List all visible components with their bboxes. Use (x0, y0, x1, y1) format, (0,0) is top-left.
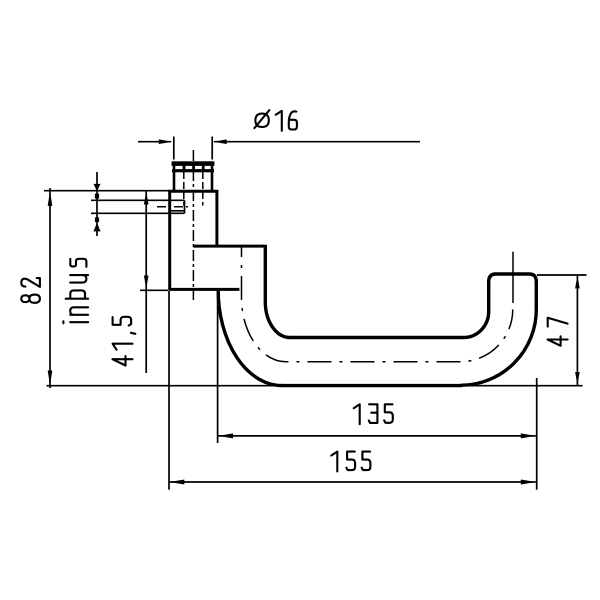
41,5 arrow up (144, 191, 149, 205)
inbus dot lower (95, 217, 99, 222)
set screw hole bottom line (91, 212, 185, 214)
41,5 arrow down (144, 276, 149, 290)
block bottom edge (168, 288, 239, 291)
Ø16 arrow right (213, 139, 227, 144)
set screw hole end (184, 200, 186, 213)
dimension 41,5 line (145, 191, 147, 373)
135 arrow right (521, 433, 536, 438)
inbus dot upper (95, 194, 99, 199)
label 41,5 (113, 317, 136, 366)
set screw hole top line (91, 199, 185, 201)
grip inner silhouette (265, 245, 495, 338)
grip end top edge (494, 274, 536, 309)
inbus dimension stem (96, 172, 98, 236)
Ø16 extension line right (211, 137, 213, 160)
thread tick B (192, 165, 195, 169)
hidden line square hole left (183, 172, 185, 206)
155 arrow left (169, 480, 184, 485)
stub left wall (173, 166, 176, 191)
label 135 (354, 404, 393, 424)
block left edge (168, 191, 171, 290)
label inbus (63, 259, 88, 324)
label 82 (21, 278, 40, 303)
shoulder edge (168, 190, 218, 193)
handle neck threaded stub bar 1 (172, 161, 215, 166)
47 arrow down (575, 372, 580, 385)
47 arrow up (575, 276, 580, 289)
hidden line square hole right (202, 172, 204, 206)
47 top extension line (537, 274, 587, 276)
82 arrow up (48, 191, 53, 206)
label 47 (548, 318, 568, 346)
set screw thread line (170, 210, 184, 212)
dimension 155 line (169, 481, 536, 483)
centerline neck axis (192, 150, 194, 300)
dimension Ø16 right line (214, 141, 420, 143)
grip centerline dash-dot (242, 246, 513, 362)
inbus arrow down big (94, 184, 101, 191)
82 arrow down (48, 371, 53, 386)
handle neck threaded stub bar 2 (172, 169, 214, 172)
label Ø16 (254, 110, 297, 131)
grip outer left curve (218, 290, 282, 386)
dimension Ø16 left line (138, 141, 171, 143)
grip root top edge (193, 245, 264, 248)
dimension 82 line (49, 188, 51, 388)
135 arrow left (218, 433, 233, 438)
135 extension line left (217, 292, 219, 443)
thread tick C (202, 165, 205, 169)
41,5 bottom extension line (140, 289, 168, 291)
inbus arrow up big (94, 223, 101, 232)
grip end outer arc (461, 309, 537, 385)
thread tick A (183, 165, 186, 169)
dimension 135 line (218, 435, 536, 437)
155 extension line left (168, 291, 170, 490)
label 155 (331, 452, 370, 472)
block right edge (215, 191, 218, 246)
dimension 47 line (576, 275, 578, 386)
155 arrow right (521, 480, 536, 485)
82 top extension line (44, 190, 170, 192)
stub right wall (211, 166, 214, 191)
Ø16 arrow left (159, 139, 173, 144)
grip end centerline vertical (512, 252, 514, 303)
grip bottom edge (281, 384, 462, 387)
Ø16 extension line left (173, 137, 175, 160)
set screw axis centerline (157, 206, 190, 208)
bottom extension line (82 / 47) (47, 385, 583, 387)
right extension line 135/155 (536, 378, 538, 490)
